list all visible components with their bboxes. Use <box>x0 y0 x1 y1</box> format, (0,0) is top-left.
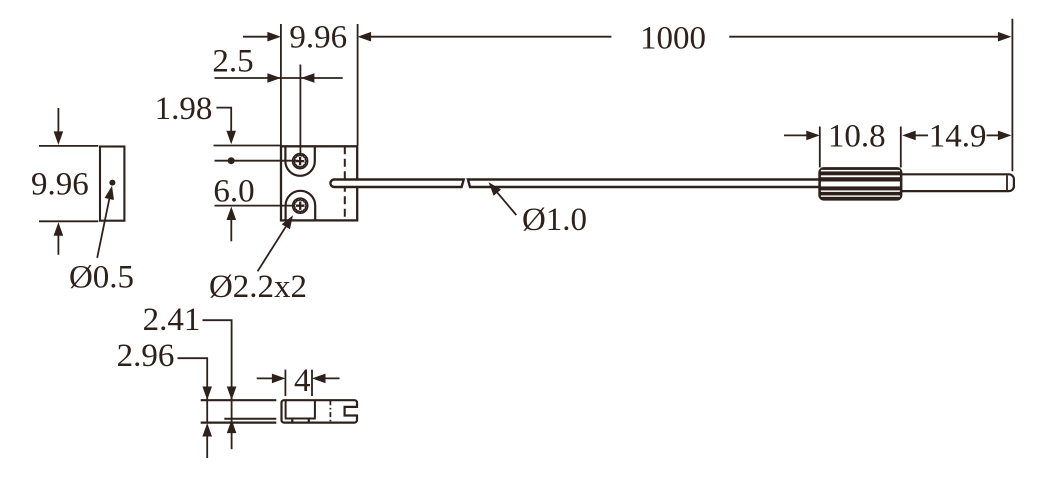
svg-text:Ø2.2x2: Ø2.2x2 <box>209 269 307 305</box>
svg-text:2.96: 2.96 <box>117 338 175 374</box>
svg-text:6.0: 6.0 <box>213 174 254 210</box>
svg-text:1.98: 1.98 <box>155 91 213 127</box>
svg-text:10.8: 10.8 <box>828 118 886 154</box>
svg-text:Ø1.0: Ø1.0 <box>522 202 587 238</box>
svg-text:2.5: 2.5 <box>212 44 253 80</box>
svg-text:4: 4 <box>294 363 311 399</box>
svg-text:Ø0.5: Ø0.5 <box>69 259 134 295</box>
svg-text:14.9: 14.9 <box>929 118 987 154</box>
svg-text:2.41: 2.41 <box>143 302 201 338</box>
svg-text:9.96: 9.96 <box>31 166 89 202</box>
svg-text:9.96: 9.96 <box>289 20 347 56</box>
svg-text:1000: 1000 <box>640 20 706 56</box>
